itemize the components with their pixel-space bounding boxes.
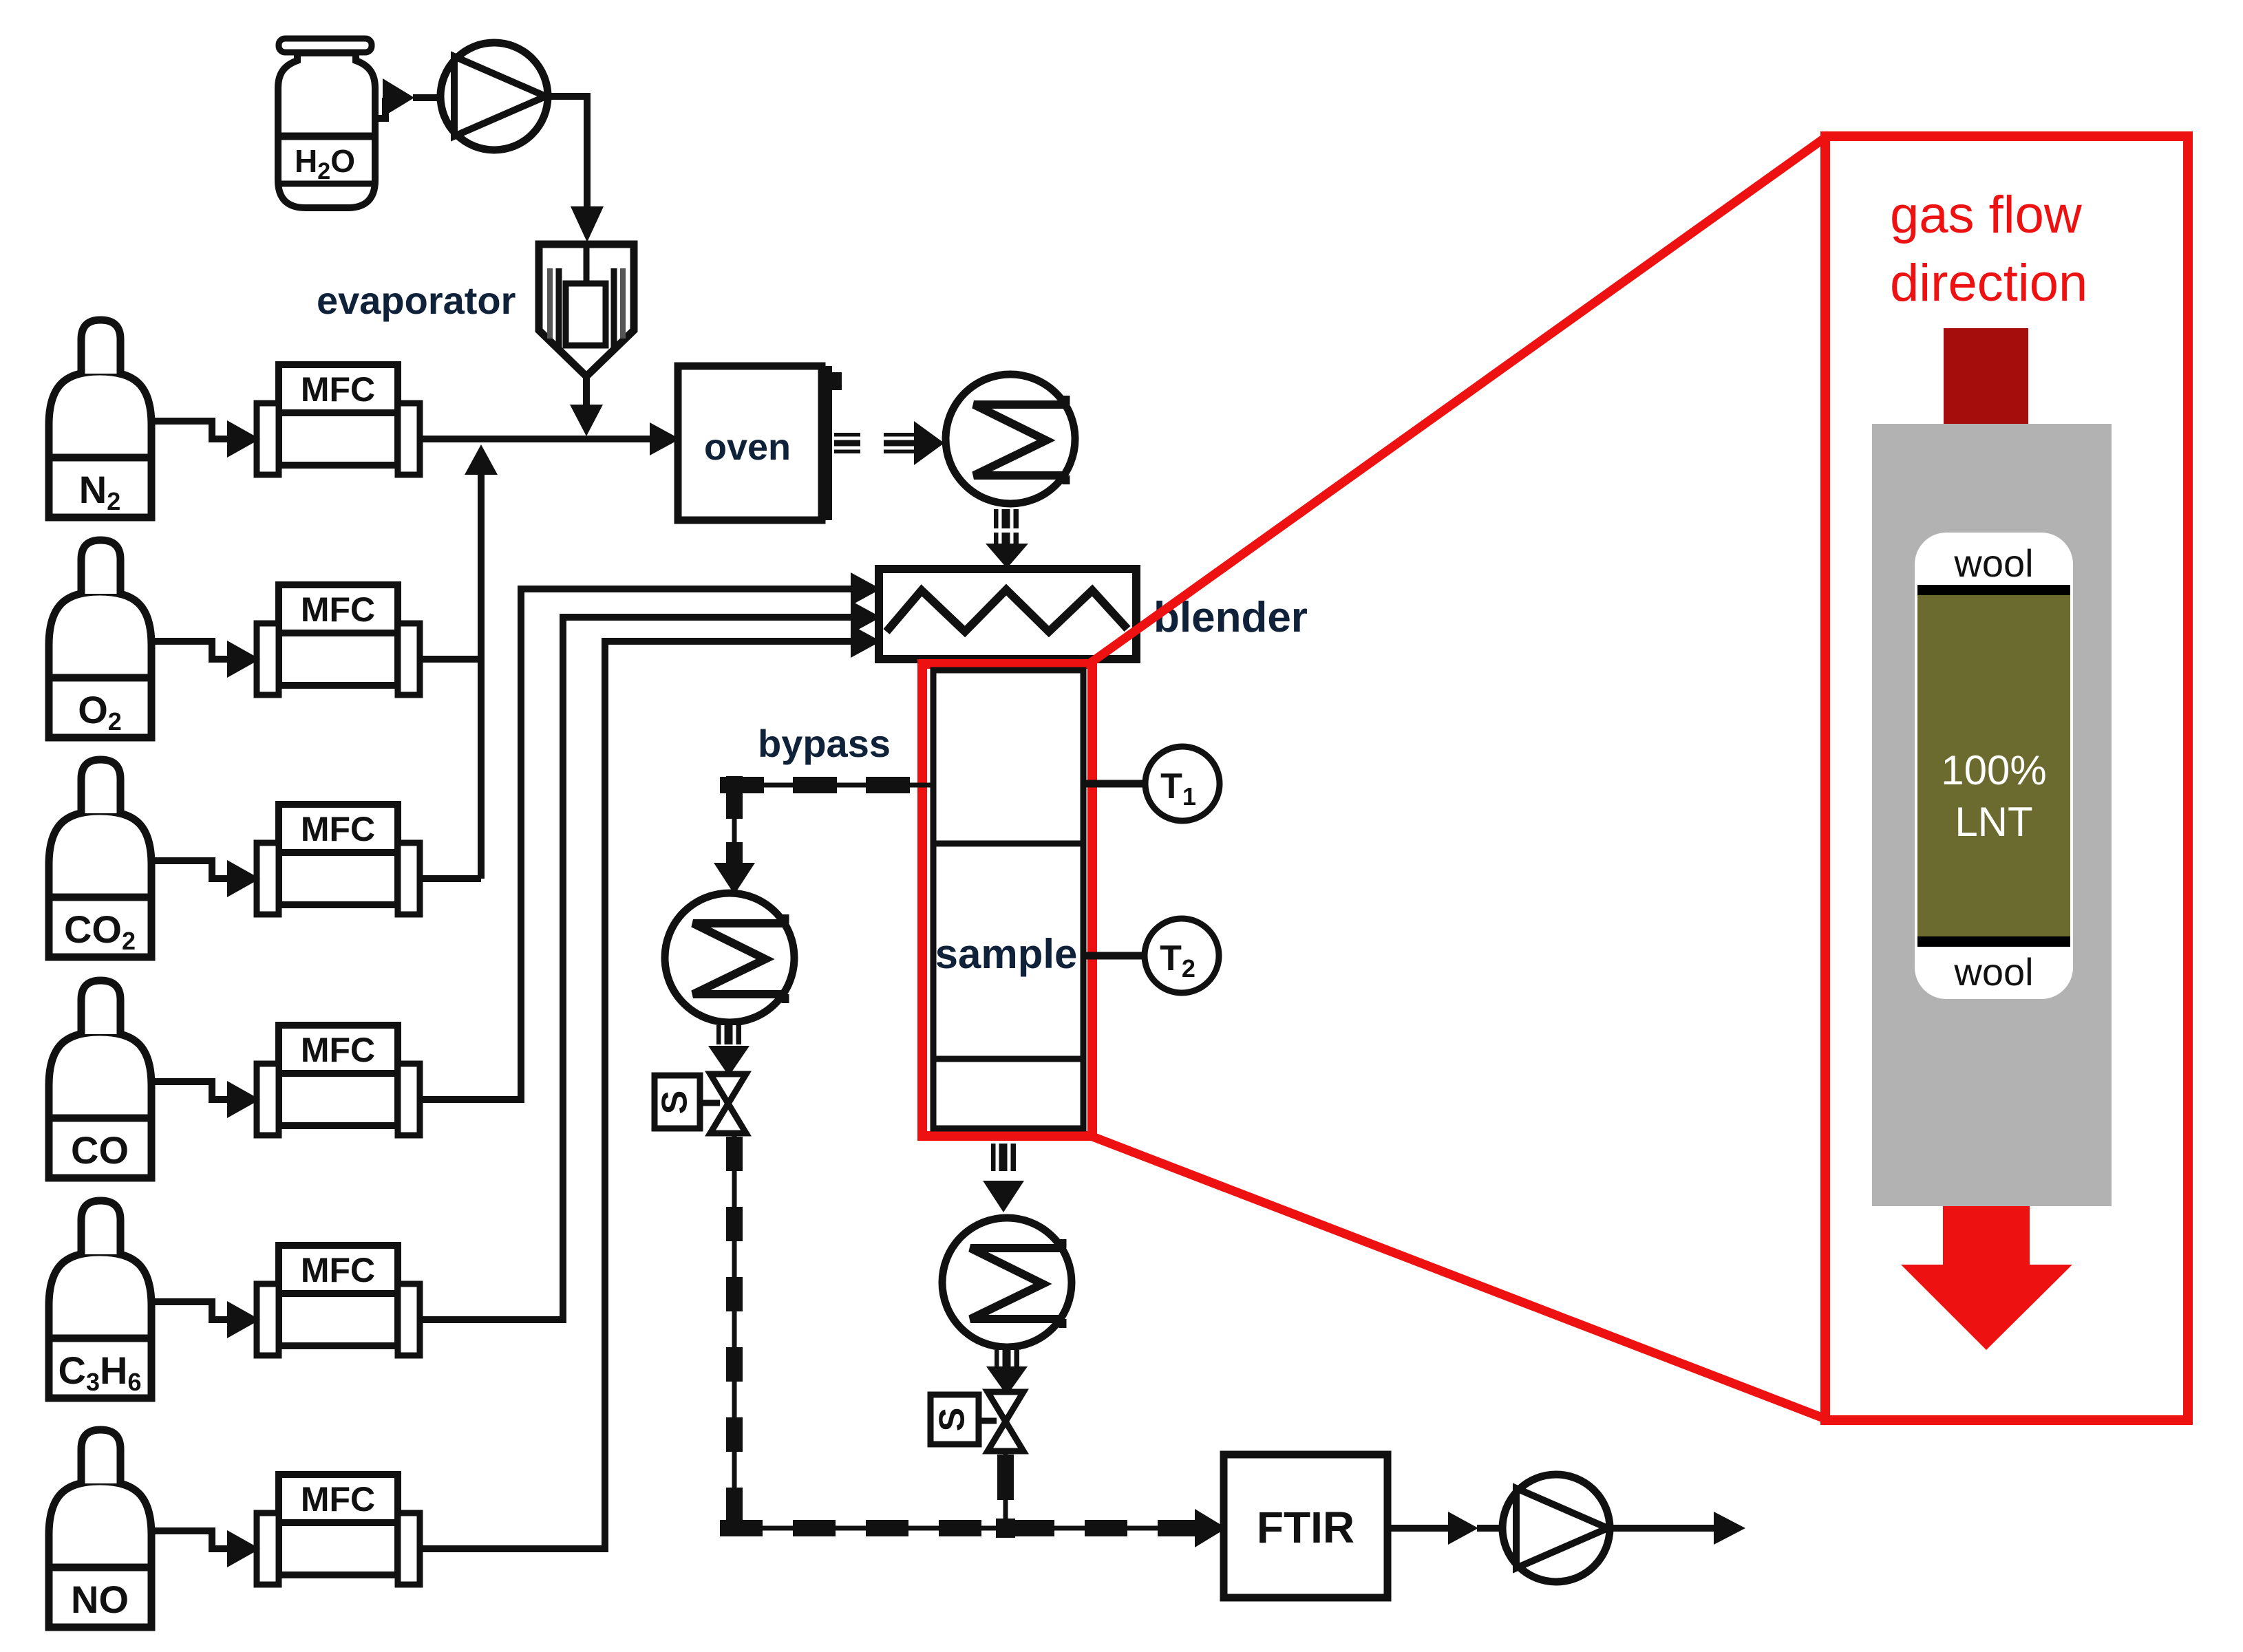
dashed wire V2 down to return line: [996, 1451, 1015, 1538]
gas cylinder CO2: [49, 760, 151, 957]
svg-text:direction: direction: [1890, 254, 2087, 312]
wire CO to MFC4: [151, 1081, 260, 1118]
svg-text:wool: wool: [1953, 541, 2033, 585]
solenoid box S1: [655, 1075, 720, 1128]
wire FTIR to pump P2: [1388, 1525, 1452, 1532]
wire pump P1 to evaporator: [546, 96, 587, 206]
wire NO to MFC6: [151, 1530, 260, 1567]
gas cylinder N2: [49, 320, 151, 517]
red magnifier line bottom: [1091, 1136, 1825, 1419]
thermocouple T1: [1145, 747, 1220, 821]
pump P2 (exhaust): [1502, 1474, 1610, 1582]
gas cylinder O2: [49, 540, 151, 738]
svg-text:FTIR: FTIR: [1257, 1503, 1354, 1552]
svg-text:wool: wool: [1953, 950, 2033, 994]
MFC 2: [257, 585, 420, 695]
heated wire E2 to valve V1: [708, 1025, 750, 1076]
wire C3H6 to MFC5: [151, 1301, 260, 1338]
solenoid box S2: [931, 1395, 997, 1444]
svg-text:sample: sample: [935, 931, 1078, 977]
wire H2O bottle to pump P1: [375, 98, 385, 118]
divider bottom: [1917, 936, 2070, 947]
bypass return dashed wire to FTIR: [720, 1509, 1226, 1547]
svg-text:S: S: [933, 1408, 972, 1432]
svg-text:CO: CO: [71, 1128, 129, 1172]
thermocouple T2: [1145, 919, 1219, 993]
catalyst bed 100% LNT: [1917, 595, 2070, 936]
wire MFC1 to oven: [420, 436, 654, 442]
pump P1 (water pump): [440, 43, 548, 150]
heated wire oven to exchanger E1: [834, 421, 944, 465]
svg-text:S: S: [655, 1091, 695, 1115]
valve V2: [988, 1392, 1023, 1451]
wire evaporator to main line: [583, 376, 590, 406]
H2O bottle: [278, 39, 375, 208]
evaporator vessel: [539, 244, 634, 376]
svg-text:LNT: LNT: [1955, 799, 2032, 845]
gas cylinder CO: [49, 980, 151, 1178]
white liner: [1915, 533, 2073, 999]
red magnifier line top: [1091, 138, 1825, 663]
svg-text:NO: NO: [71, 1578, 129, 1621]
riser 1 (O2 + CO2 up to main line): [478, 473, 485, 879]
svg-text:evaporator: evaporator: [317, 279, 515, 322]
heated wire E1 to blender: [986, 509, 1028, 568]
MFC 3: [257, 804, 420, 914]
wire pump P2 to exhaust: [1610, 1525, 1718, 1532]
red inset frame around sample: [922, 664, 1092, 1136]
svg-text:gas flow: gas flow: [1890, 186, 2083, 244]
dark red inlet arrow: [1944, 328, 2028, 426]
wire MFC5 to blender (riser 3): [420, 617, 853, 1320]
MFC 1: [257, 365, 420, 475]
wire MFC2 to riser 1: [420, 656, 481, 663]
sample reactor column: [933, 670, 1083, 1128]
heat exchanger E3 (outlet): [942, 1218, 1072, 1347]
svg-text:bypass: bypass: [758, 722, 891, 765]
bypass dashed wire below V1 down to return line: [732, 1133, 737, 1528]
wire N2 to MFC1: [151, 420, 260, 458]
MFC 5: [257, 1245, 420, 1355]
heat exchanger E2 (bypass): [665, 893, 794, 1022]
FTIR analyzer: [1224, 1455, 1388, 1598]
red inset detail box: [1825, 136, 2188, 1420]
svg-text:oven: oven: [704, 427, 791, 468]
bypass dashed wire vertical to E2: [714, 776, 755, 894]
divider top: [1917, 585, 2070, 595]
gray reactor tube: [1872, 424, 2112, 1206]
wire sample to T1: [1081, 780, 1148, 788]
wire MFC6 to blender (riser 4): [420, 641, 853, 1549]
wire CO2 to MFC3: [151, 860, 260, 897]
blender: [879, 569, 1136, 659]
wire sample to T2: [1081, 952, 1148, 960]
oven: [678, 366, 842, 520]
MFC 4: [257, 1025, 420, 1135]
heat exchanger E1: [946, 374, 1075, 504]
heated wire E3 to valve V2: [986, 1350, 1028, 1395]
red outlet arrow: [1943, 1206, 2030, 1267]
MFC 6: [257, 1474, 420, 1585]
bypass dashed wire horizontal: [720, 783, 934, 788]
wire MFC4 to blender (riser 2): [420, 589, 853, 1099]
svg-text:100%: 100%: [1941, 747, 2046, 793]
gas cylinder NO: [49, 1430, 151, 1627]
wire MFC3 to riser 1: [420, 875, 481, 882]
heated wire sample outlet to E3: [983, 1144, 1024, 1212]
valve V1: [710, 1074, 746, 1133]
wire O2 to MFC2: [151, 641, 260, 678]
gas cylinder C3H6: [49, 1201, 151, 1398]
